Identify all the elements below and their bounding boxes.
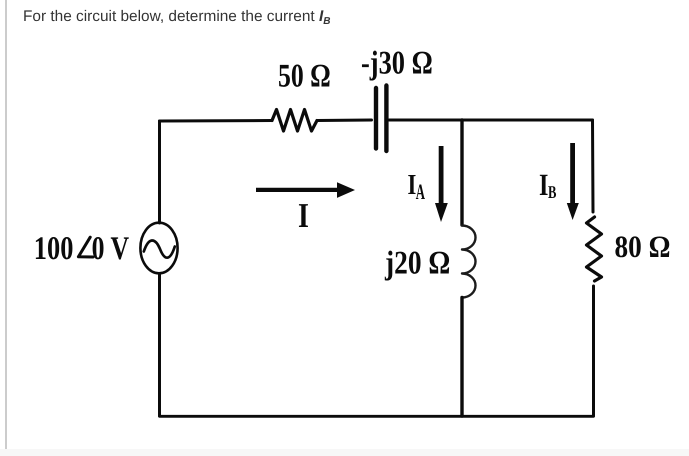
svg-text:-j30 Ω: -j30 Ω [361, 46, 433, 82]
wire: left vertical upper (corner to source) [158, 121, 161, 223]
capacitor -j30ohm left plate [374, 88, 378, 149]
current arrow I [256, 182, 355, 198]
voltage source sine wave [144, 240, 175, 257]
wire: right vertical upper (corner to resistor R2) [591, 120, 595, 212]
wire: right vertical lower (resistor to bottom wire) [592, 286, 595, 416]
resistor 80ohm zigzag [587, 217, 602, 281]
svg-text:I: I [408, 169, 417, 201]
wire: middle branch bottom (inductor to bottom wire) [460, 297, 463, 416]
capacitor -j30ohm right plate [384, 86, 388, 152]
svg-text:100: 100 [34, 231, 74, 267]
current arrow IA [435, 146, 448, 222]
voltage source V1 ellipse [140, 223, 177, 274]
svg-text:I: I [539, 167, 548, 202]
inductor j20ohm coil [462, 226, 476, 298]
wire: resistor to capacitor [317, 119, 372, 123]
header question text [23, 8, 331, 27]
wire: middle branch top (junction to inductor) [460, 120, 463, 225]
wire: bottom horizontal [160, 415, 594, 418]
resistor 50ohm zigzag [272, 110, 317, 132]
faint bottom page band [0, 449, 689, 456]
svg-text:j20 Ω: j20 Ω [384, 246, 450, 282]
svg-text:0 V: 0 V [92, 231, 130, 267]
wire: capacitor to top-right corner [389, 119, 593, 122]
svg-text:50 Ω: 50 Ω [278, 59, 331, 95]
wire: top-left segment from corner to resistor R1 [160, 119, 273, 123]
angle symbol of source label [78, 237, 93, 257]
svg-text:80 Ω: 80 Ω [615, 229, 671, 264]
wire: left vertical lower (source to bottom) [158, 274, 161, 417]
svg-text:I: I [298, 196, 309, 235]
svg-text:A: A [416, 179, 425, 204]
left page border [5, 0, 7, 456]
current arrow IB [567, 143, 579, 220]
svg-text:B: B [548, 182, 556, 202]
